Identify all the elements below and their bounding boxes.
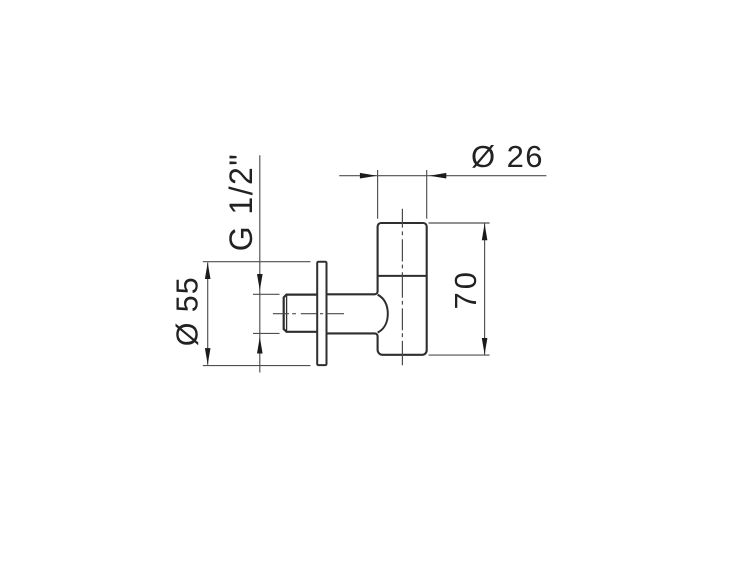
- vertical centerline: [401, 209, 403, 365]
- dimension G 1/2 arrow up: [257, 337, 263, 354]
- dimension 70 arrow up: [482, 224, 488, 241]
- svg-text:70: 70: [448, 272, 483, 310]
- dimension D26 arrow left: [360, 173, 377, 179]
- body section line: [378, 275, 427, 277]
- dimension 70 line: [484, 223, 486, 355]
- dimension D55 arrow up: [205, 263, 211, 280]
- svg-text:G 1/2": G 1/2": [223, 154, 259, 251]
- wall flange: [317, 262, 326, 365]
- threaded nipple G 1/2: [284, 295, 318, 332]
- dimension D26 line: [339, 175, 546, 177]
- dimension D26 extension line left: [377, 170, 379, 219]
- dimension D55 label: [171, 277, 205, 346]
- dimension D55 extension line bottom: [203, 365, 311, 367]
- dimension D55 arrow down: [205, 348, 211, 365]
- dimension D55 line: [207, 263, 209, 365]
- valve body outline: [327, 223, 426, 355]
- dimension G 1/2 arrow down: [257, 274, 263, 291]
- pipe-body intersection arc: [378, 295, 388, 333]
- dimension D55 extension line top: [203, 261, 311, 263]
- dimension G 1/2 label: [223, 154, 259, 251]
- dimension D26 label: [471, 139, 543, 174]
- dimension D26 arrow right: [429, 173, 446, 179]
- svg-text:Ø 26: Ø 26: [471, 139, 543, 174]
- horizontal centerline: [273, 313, 344, 315]
- dimension G 1/2 tick bottom: [253, 332, 280, 334]
- dimension D26 extension line right: [426, 170, 428, 219]
- dimension 70 extension line bottom: [429, 354, 490, 356]
- dimension 70 extension line top: [429, 222, 490, 224]
- svg-text:Ø 55: Ø 55: [171, 277, 205, 346]
- dimension G 1/2 line: [259, 155, 261, 372]
- dimension 70 arrow down: [482, 338, 488, 355]
- dimension 70 label: [448, 272, 483, 310]
- dimension G 1/2 tick top: [253, 293, 280, 295]
